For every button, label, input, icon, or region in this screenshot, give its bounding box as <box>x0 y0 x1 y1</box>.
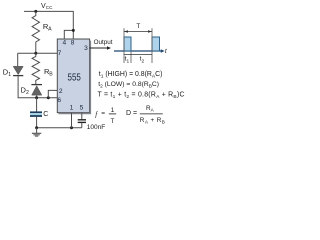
svg-text:5: 5 <box>80 105 84 112</box>
svg-text:1: 1 <box>8 72 11 78</box>
dimension T arrow <box>124 31 152 33</box>
svg-text:B: B <box>49 72 53 78</box>
node Vcc junction <box>34 10 37 13</box>
wire output pin 3 <box>90 47 108 49</box>
dimension t1 t2 lines <box>124 54 152 56</box>
op IC 555 U1 body <box>57 39 89 113</box>
formula D = RA/(RA+RB) <box>126 105 165 125</box>
node C junction <box>35 96 38 99</box>
wire Vcc rail <box>24 11 73 30</box>
formula line 1 <box>99 71 163 80</box>
dimension T extension lines <box>123 28 125 63</box>
svg-text:D =: D = <box>126 110 137 117</box>
svg-text:4: 4 <box>62 40 66 47</box>
wire D1 to bottom node <box>17 76 19 98</box>
node mid junction <box>34 52 37 55</box>
wire bottom node rail <box>18 97 57 99</box>
svg-text:6: 6 <box>57 97 61 104</box>
svg-text:100nF: 100nF <box>87 124 105 131</box>
ground <box>36 128 38 133</box>
svg-text:RA + RB: RA + RB <box>140 117 165 125</box>
svg-text:555: 555 <box>68 72 81 83</box>
diode D1 <box>13 66 23 74</box>
wire pin4/pin8 reset bracket <box>64 30 73 39</box>
resistor RA <box>32 11 39 53</box>
svg-text:3: 3 <box>84 45 88 52</box>
resistor RB <box>32 53 39 84</box>
formula f = 1/T <box>95 107 116 125</box>
wire pin 1 to ground rail <box>71 113 73 128</box>
svg-text:T: T <box>136 23 140 30</box>
wire mid rail to pin 7 <box>18 52 58 54</box>
wire ground rail <box>37 127 82 129</box>
svg-text:T: T <box>111 118 115 125</box>
svg-text:1: 1 <box>111 107 115 114</box>
svg-text:A: A <box>48 27 52 33</box>
waveform pulse 1 <box>124 37 131 51</box>
svg-text:1: 1 <box>70 105 74 112</box>
svg-text:2: 2 <box>59 88 63 95</box>
svg-text:Output: Output <box>94 39 113 46</box>
node pin1 ground junction <box>70 126 73 129</box>
formula line 2 <box>98 81 159 90</box>
svg-text:8: 8 <box>71 40 75 47</box>
Vcc power label <box>41 3 53 10</box>
svg-text:7: 7 <box>58 50 62 57</box>
node pin8 junction <box>72 29 75 32</box>
svg-text:2: 2 <box>26 90 29 96</box>
formula line 3 <box>98 91 185 100</box>
svg-text:2: 2 <box>142 59 145 65</box>
wire bracket to pin 2 <box>48 90 57 97</box>
waveform axis <box>114 50 162 52</box>
svg-text:=: = <box>101 110 105 117</box>
svg-text:CC: CC <box>46 5 53 10</box>
node pin2/6 branch junction <box>47 96 50 99</box>
capacitor C <box>36 98 38 112</box>
diode D2 <box>31 84 42 86</box>
capacitor 100nF on pin 5 <box>81 113 83 120</box>
wire D1 branch down <box>17 53 19 66</box>
svg-text:C: C <box>43 111 48 118</box>
node ground junction <box>35 126 38 129</box>
waveform pulse 2 <box>152 37 160 51</box>
svg-text:1: 1 <box>127 59 130 65</box>
